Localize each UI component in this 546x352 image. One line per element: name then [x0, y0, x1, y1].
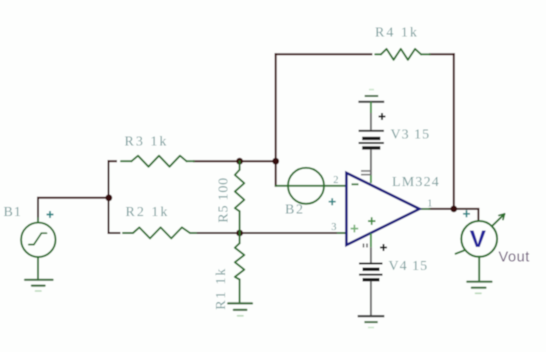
svg-text:V4 15: V4 15	[389, 259, 429, 274]
svg-text:V: V	[470, 226, 487, 253]
svg-text:B2: B2	[285, 203, 305, 218]
svg-text:R2 1k: R2 1k	[126, 205, 170, 220]
svg-text:R4 1k: R4 1k	[375, 26, 419, 41]
svg-text:R3 1k: R3 1k	[125, 135, 169, 150]
svg-text:R5 100: R5 100	[217, 177, 232, 223]
svg-text:Vout: Vout	[499, 250, 530, 266]
svg-text:V3 15: V3 15	[391, 128, 431, 143]
svg-text:LM324: LM324	[392, 175, 440, 190]
svg-text:B1: B1	[4, 205, 22, 220]
svg-text:R1 1k: R1 1k	[214, 267, 229, 310]
svg-text:2: 2	[333, 175, 338, 186]
svg-text:3: 3	[331, 222, 336, 233]
svg-text:1: 1	[427, 199, 432, 210]
